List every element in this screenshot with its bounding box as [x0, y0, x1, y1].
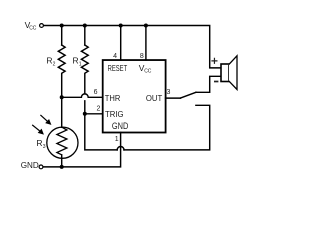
svg-text:4: 4 — [113, 53, 117, 60]
svg-text:CC: CC — [29, 26, 37, 32]
svg-text:GND: GND — [112, 121, 129, 131]
svg-text:OUT: OUT — [146, 93, 162, 103]
svg-text:GND: GND — [21, 160, 39, 170]
svg-text:6: 6 — [94, 89, 98, 96]
svg-text:R: R — [36, 138, 42, 148]
svg-text:1: 1 — [115, 136, 119, 143]
svg-text:CC: CC — [144, 69, 152, 75]
svg-text:THR: THR — [105, 93, 121, 103]
svg-text:3: 3 — [43, 144, 46, 150]
svg-text:1: 1 — [79, 61, 82, 67]
svg-text:2: 2 — [53, 61, 56, 67]
svg-text:8: 8 — [140, 53, 144, 60]
svg-text:RESET: RESET — [108, 63, 128, 73]
svg-text:TRIG: TRIG — [105, 109, 124, 119]
svg-text:3: 3 — [167, 89, 171, 96]
svg-text:2: 2 — [97, 105, 101, 112]
